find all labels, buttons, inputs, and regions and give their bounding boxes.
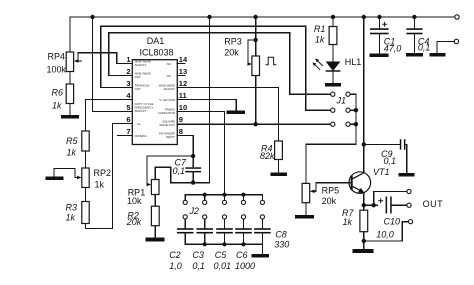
resistor R4 [260,141,282,173]
capacitor C2 [169,228,193,271]
terminal OUT 2 [407,203,411,207]
svg-text:J1: J1 [336,95,347,105]
ground (R7 emitter load) [353,249,374,253]
wire pin 4 to R5 [86,100,126,132]
resistor R1 [314,17,337,62]
svg-text:1,0: 1,0 [169,261,182,271]
node rail junction G (C4 top) [412,15,416,19]
svg-text:C6: C6 [236,250,248,260]
svg-text:330: 330 [274,240,289,250]
resistor R7 [342,205,368,249]
svg-text:11: 11 [179,91,187,100]
svg-text:C10: C10 [384,216,401,226]
svg-text:ADJUST: ADJUST [135,63,147,67]
terminal GND input [437,39,459,53]
svg-text:20k: 20k [322,196,337,206]
svg-text:20k: 20k [224,48,239,58]
capacitor C6 [235,228,255,271]
connector J2 pins column 1 [183,195,187,229]
potentiometer RP5 [302,183,352,215]
wire C7 node to RP1 wiper [147,156,194,186]
svg-text:R1: R1 [314,24,326,34]
wire RP1 top to C7 bottom node [155,167,193,182]
svg-text:R6: R6 [51,88,63,98]
svg-text:C3: C3 [192,250,204,260]
svg-text:0,1: 0,1 [173,166,186,176]
pin 4 [125,91,132,100]
ground (supply terminal) [430,53,446,57]
svg-text:RP3: RP3 [224,37,242,47]
svg-text:13: 13 [179,67,187,76]
pin 5 [125,102,153,113]
pin 1 [125,55,151,67]
svg-text:V+: V+ [137,122,141,126]
wire rail to VT1 collector [362,17,366,172]
svg-text:OUT: OUT [135,75,142,79]
resistor R3 [65,202,89,224]
svg-text:1k: 1k [66,148,76,158]
svg-text:1k: 1k [65,213,75,223]
terminal +V input [455,15,459,19]
ground (J2 capacitors) [252,254,270,258]
svg-text:ADJUST: ADJUST [163,87,175,91]
node rail junction A (RP4 top) [90,15,94,19]
wire J1 common to RP5 top [306,144,356,183]
terminal OUT 1 [407,189,411,193]
pin 7 [118,127,147,138]
wire rail to pin 5 [93,17,126,112]
capacitor C1 [370,17,401,54]
svg-text:1k: 1k [315,34,325,44]
svg-text:RP4: RP4 [47,52,65,62]
pin 2 [125,67,151,79]
svg-text:82k: 82k [260,151,275,161]
node rail junction C (RP3 top) [253,15,257,19]
svg-text:10: 10 [179,103,187,112]
svg-text:V- OR GND: V- OR GND [159,98,176,102]
connector J1 row 3 [331,122,358,126]
potentiometer RP1 [127,180,159,207]
ground (below R4) [270,173,287,177]
pin 9 [159,115,184,127]
svg-text:9: 9 [179,115,183,124]
svg-text:J2: J2 [189,206,200,216]
svg-text:C2: C2 [169,250,181,260]
wire pin 9 square out to J1 row 3 [185,122,331,126]
svg-text:47,0: 47,0 [384,43,402,53]
pin 14 [167,55,188,66]
svg-text:3: 3 [126,79,130,88]
connector J2 pins column 3 [222,195,226,229]
node rail junction B (to C7 node) [207,15,211,19]
svg-text:VT1: VT1 [373,167,390,177]
svg-text:7: 7 [126,127,130,136]
pin 3 [125,79,150,91]
ground (C1) [370,54,389,58]
svg-text:8: 8 [179,127,183,136]
node VT1 emitter [362,203,378,207]
connector J2 pins column 5 [260,195,264,229]
svg-text:HL1: HL1 [345,57,362,67]
svg-text:0,1: 0,1 [384,156,397,166]
svg-text:WAVE OUT: WAVE OUT [159,123,175,127]
svg-text:OUT: OUT [423,199,444,209]
svg-text:10,0: 10,0 [376,229,394,239]
connector J2 (range jumpers) top bus [185,193,262,216]
capacitor C3 [192,228,213,271]
svg-text:5: 5 [126,103,130,112]
svg-text:OUT: OUT [135,87,142,91]
capacitor C8 [254,228,289,250]
node rail junction E (VT1 collector) [362,15,366,19]
capacitor C9 [364,139,407,173]
wire +V supply rail [70,16,455,18]
wire pin 10 to J2 bus [185,112,225,195]
svg-text:0,1: 0,1 [418,43,431,53]
wire pin 2 sine to J1 row 1 [109,33,331,94]
terminal OUT ground [364,220,413,241]
svg-text:12: 12 [179,79,187,88]
wire pin 3 triangle to J1 row 2 [101,26,331,110]
potentiometer RP3 (square-wave pull-up) [224,17,259,125]
svg-text:1: 1 [126,55,130,64]
pin 13 [167,67,187,78]
connector J2 pins column 4 [241,195,245,229]
node rail junction D (R1 top) [331,15,335,19]
svg-text:100k: 100k [46,65,66,75]
ground (below R2) [146,238,165,242]
resistor R6 [51,72,73,116]
connector J1 row 1 [331,92,356,144]
svg-text:0,1: 0,1 [192,261,205,271]
pin 6 [125,115,141,126]
wire pin 11 to ground [185,100,237,111]
svg-text:20k: 20k [126,217,142,227]
svg-text:ADJUST: ADJUST [135,109,147,113]
ground (LED cathode) [325,83,341,87]
resistor R2 [126,206,160,237]
pin 10 [158,103,187,115]
svg-text:10k: 10k [127,196,142,206]
connector J1 row 2 [331,108,358,112]
svg-text:C8: C8 [275,230,287,240]
op-amp U1 / IC DA1 ICL8038 body [132,36,177,145]
svg-text:0,01: 0,01 [214,261,232,271]
ground (RP5) [295,215,314,219]
resistor R5 [66,131,89,168]
transistor Q1 / VT1 [349,167,390,205]
square-wave symbol [266,57,277,65]
connector J2 pins column 2 [203,195,207,229]
svg-text:R5: R5 [66,136,78,146]
svg-text:1k: 1k [52,101,62,111]
ground (pin 11) [227,111,246,114]
svg-text:1k: 1k [95,180,105,190]
capacitor C10 [376,197,407,240]
wire emitter to OUT terminal 1 [374,192,407,206]
ground (C9) [399,173,415,177]
svg-text:1000: 1000 [235,261,255,271]
potentiometer RP2 [54,168,111,202]
svg-text:14: 14 [179,55,188,64]
wire rail drop to C7 bottom node [193,17,209,183]
capacitor C5 [214,228,233,271]
pin 12 [159,79,187,91]
ground (below R6) [61,115,79,119]
capacitor C4 [406,17,430,53]
svg-text:R3: R3 [65,203,77,213]
svg-text:ICL8038: ICL8038 [139,48,173,58]
svg-text:C5: C5 [215,250,227,260]
svg-text:1k: 1k [343,217,353,227]
pin 11 [159,91,186,102]
wire pin 6 to R3 bottom [86,124,126,229]
wire J2 bottom bus [185,242,262,254]
LED HL1 [313,57,362,83]
svg-text:FM BIAS: FM BIAS [135,134,147,138]
svg-text:6: 6 [126,115,130,124]
svg-text:RP5: RP5 [322,185,340,195]
svg-text:2: 2 [126,67,130,76]
ground (C4) [406,53,423,57]
potentiometer RP4 [46,17,125,75]
ground (RP2 wiper) [46,177,64,181]
wire pin 12 to R4 [185,88,279,142]
capacitor C3? no - capacitor C7 [173,156,202,185]
svg-text:DA1: DA1 [147,36,165,46]
svg-text:CAPACITOR: CAPACITOR [158,111,176,115]
svg-text:INPUT: INPUT [166,135,175,139]
pin 8 [159,127,185,139]
svg-text:RP2: RP2 [94,168,112,178]
wire pin 8 to C7 top node [185,136,196,159]
node rail junction F (C1 top) [377,15,381,19]
